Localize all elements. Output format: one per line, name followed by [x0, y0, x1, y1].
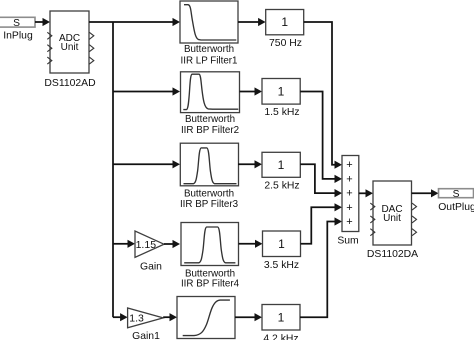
wire Filter3 to R3	[238, 160, 262, 168]
DAC unit U2	[367, 181, 418, 260]
svg-text:1.5 kHz: 1.5 kHz	[264, 107, 299, 118]
outport OutPlug	[438, 189, 474, 213]
wire R2 to Sum input2	[300, 92, 342, 184]
svg-text:S: S	[453, 189, 460, 200]
svg-text:1.15: 1.15	[136, 239, 157, 251]
ADC input port chevrons	[47, 32, 52, 64]
svg-text:IIR BP Filter2: IIR BP Filter2	[181, 125, 239, 136]
gain triangle Gain1 1.3	[128, 308, 164, 340]
wire trunk to Filter2	[113, 87, 180, 95]
wire Filter2 to R2	[240, 87, 263, 95]
svg-text:Gain1: Gain1	[132, 331, 160, 340]
svg-text:1: 1	[278, 311, 285, 325]
svg-text:+: +	[346, 173, 352, 185]
node branch junction	[112, 22, 114, 317]
wire Gain1 to Filter5	[163, 313, 177, 321]
filter block Filter2 (BP)	[181, 72, 240, 136]
filter block Filter5 (HP)	[177, 297, 235, 339]
wire Filter1 to R1	[238, 18, 266, 26]
wire Gain to Filter4	[164, 240, 180, 248]
svg-text:2.5 kHz: 2.5 kHz	[264, 181, 299, 192]
svg-text:Gain: Gain	[140, 262, 162, 273]
wire InPlug to ADC	[35, 18, 50, 26]
inport InPlug	[0, 17, 35, 41]
svg-text:Butterworth: Butterworth	[184, 44, 234, 55]
filter block Filter4 (BP)	[181, 223, 240, 290]
svg-text:3.5 kHz: 3.5 kHz	[264, 260, 299, 271]
ADC output port chevrons	[89, 32, 94, 64]
svg-text:1: 1	[278, 85, 285, 99]
svg-text:DS1102DA: DS1102DA	[367, 249, 418, 260]
ADC unit U1	[44, 11, 95, 89]
wire Sum to DAC	[359, 189, 373, 197]
svg-text:DS1102AD: DS1102AD	[44, 78, 95, 89]
wire R4 to Sum input4	[301, 203, 343, 244]
svg-text:InPlug: InPlug	[3, 31, 33, 42]
gain block R5 "1"	[262, 305, 300, 340]
gain block R1 "1"	[266, 10, 304, 50]
svg-text:IIR BP Filter3: IIR BP Filter3	[180, 199, 239, 210]
DAC input port chevrons	[370, 203, 375, 236]
svg-text:1: 1	[281, 15, 288, 29]
DAC output port chevrons	[412, 203, 417, 236]
svg-text:1: 1	[278, 237, 285, 251]
svg-text:IIR LP Filter1: IIR LP Filter1	[181, 56, 238, 67]
wire DAC to OutPlug	[412, 189, 439, 197]
svg-text:Unit: Unit	[61, 42, 79, 53]
svg-text:+: +	[346, 159, 352, 171]
gain block R3 "1"	[262, 152, 300, 191]
wire R3 to Sum input3	[300, 164, 342, 197]
svg-text:OutPlug: OutPlug	[438, 202, 474, 213]
gain block R4 "1"	[263, 231, 301, 271]
wire trunk to Gain1	[113, 313, 128, 321]
svg-text:+: +	[346, 216, 352, 228]
wire trunk to Gain	[113, 240, 135, 248]
wire trunk to Filter3	[113, 160, 180, 168]
svg-text:1.3: 1.3	[129, 312, 144, 324]
wire R5 to Sum input5	[300, 217, 342, 317]
svg-text:4.2 kHz: 4.2 kHz	[263, 333, 298, 340]
wire R1 to Sum input1	[304, 22, 342, 169]
svg-text:1: 1	[278, 158, 285, 172]
svg-text:+: +	[346, 202, 352, 214]
wire Filter4 to R4	[239, 240, 263, 248]
svg-text:750 Hz: 750 Hz	[269, 38, 302, 49]
svg-text:IIR BP Filter4: IIR BP Filter4	[181, 278, 240, 289]
gain triangle Gain 1.15	[135, 231, 164, 273]
gain block R2 "1"	[262, 79, 300, 119]
wire Filter5 to R5	[235, 313, 262, 321]
sum block Sum	[337, 156, 358, 247]
svg-text:Butterworth: Butterworth	[185, 114, 235, 125]
svg-text:Sum: Sum	[337, 236, 358, 247]
filter block Filter3 (BP)	[180, 143, 239, 210]
svg-text:+: +	[346, 188, 352, 200]
svg-text:Unit: Unit	[383, 213, 401, 224]
wire ADC to Filter1	[89, 18, 180, 26]
svg-text:S: S	[13, 18, 20, 29]
filter block Filter1 (LP)	[180, 1, 238, 67]
